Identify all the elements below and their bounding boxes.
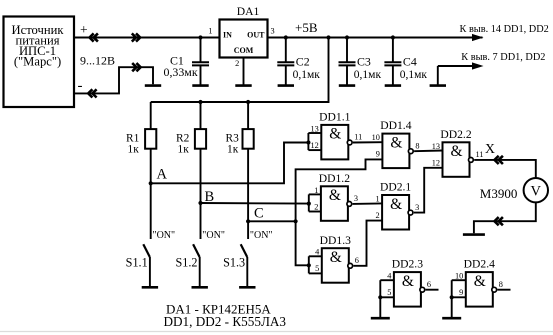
svg-text:1к: 1к [178, 144, 190, 156]
DD1.1 input tie [306, 133, 321, 150]
ground for - lead [145, 84, 161, 87]
svg-text:8: 8 [499, 280, 503, 289]
resistor R2 1к [176, 102, 206, 239]
svg-text:DD2.4: DD2.4 [464, 258, 495, 271]
svg-text:&: & [474, 273, 486, 290]
wire: DD1.1 out to DD1.4 pin 10 [353, 141, 382, 143]
svg-text:DD1.3: DD1.3 [320, 234, 351, 247]
svg-text:12: 12 [311, 141, 319, 150]
connector chevron X1 on + wire (right) [132, 33, 140, 41]
svg-text:3: 3 [271, 26, 275, 35]
ground for voltmeter return [463, 233, 485, 236]
svg-text:"ON": "ON" [250, 230, 273, 241]
svg-text:S1.2: S1.2 [175, 255, 197, 269]
svg-text:DD2.3: DD2.3 [392, 258, 423, 271]
wire: C riser up to DD1.4 pin 9 [296, 159, 383, 221]
svg-text:OUT: OUT [247, 30, 265, 39]
voltmeter PV1 M3900 [480, 178, 548, 202]
capacitor C3 0,1мк [345, 35, 349, 39]
wire: DD2.2 out to voltmeter [474, 160, 536, 178]
node: C riser junction [294, 219, 298, 223]
svg-text:-: - [78, 78, 83, 94]
wire: - lead from power box with jog [74, 67, 153, 93]
svg-text:9: 9 [459, 288, 463, 297]
switch S1.2 [175, 230, 224, 287]
capacitor C2 0,1мк [284, 35, 288, 39]
svg-text:9: 9 [376, 150, 380, 159]
capacitor C4 0,1мк [391, 35, 395, 39]
DD1.2 input tie [307, 194, 321, 211]
svg-text:М3900: М3900 [480, 186, 518, 201]
NAND gate DD2.4 (unused) [455, 258, 503, 307]
wire: DD1.4 out to DD2.2 pin 13 [414, 150, 442, 153]
DA1 pin 2 lead and ground [243, 58, 245, 86]
DD2.4 output stub [498, 289, 511, 291]
svg-text:DA1: DA1 [237, 5, 260, 18]
svg-text:11: 11 [354, 133, 362, 142]
NAND gate DD1.2 [314, 172, 358, 221]
svg-text:&: & [390, 134, 402, 151]
capacitor C1 0,33мк [164, 35, 210, 85]
svg-text:DD2.1: DD2.1 [380, 181, 411, 194]
NAND gate DD2.3 (unused) [387, 258, 431, 307]
DD2.3 input tie to ground [371, 280, 394, 318]
svg-text:+5В: +5В [295, 20, 318, 35]
svg-text:10: 10 [372, 133, 380, 142]
wire: node A to DD1.1 inputs [151, 143, 310, 184]
svg-text:C: C [254, 206, 264, 222]
svg-text:DD1.1: DD1.1 [319, 111, 350, 124]
svg-text:&: & [329, 187, 341, 204]
svg-text:IN: IN [223, 30, 232, 39]
wire: DD1.2 out to DD2.1 pin 1 [353, 202, 383, 205]
svg-text:0,1мк: 0,1мк [354, 69, 382, 81]
switch S1.1 [126, 230, 175, 287]
connector chevron X2 on - wire (left) [88, 89, 96, 97]
wire: + rail from power box to DA1 pin 1 [74, 37, 220, 39]
svg-text:&: & [330, 249, 342, 266]
svg-text:2: 2 [375, 211, 379, 220]
connector chevron on X wire [495, 156, 503, 164]
svg-text:S1.3: S1.3 [223, 255, 245, 269]
svg-text:С2: С2 [296, 55, 310, 69]
svg-text:A: A [157, 167, 168, 183]
svg-text:COM: COM [234, 46, 254, 55]
connector chevron X1 on + wire (left) [90, 33, 98, 41]
svg-text:6: 6 [427, 280, 431, 289]
svg-text:5: 5 [387, 288, 391, 297]
svg-text:9...12В: 9...12В [80, 53, 115, 67]
svg-text:X: X [485, 141, 495, 156]
wire: node C to riser [248, 220, 296, 222]
node A [149, 181, 153, 185]
connector chevron on return wire [495, 217, 503, 225]
resistor R1 1к [126, 102, 156, 239]
node C [246, 219, 250, 223]
svg-text:V: V [531, 183, 542, 199]
svg-text:13: 13 [311, 124, 319, 133]
wire: +5V drop to resistor rail [151, 35, 331, 104]
wire: node B to DD1.2 inputs [201, 202, 310, 205]
wire: voltmeter return to ground [474, 202, 536, 233]
svg-text:3: 3 [354, 194, 358, 203]
NAND gate DD2.2 [432, 128, 484, 177]
svg-text:1: 1 [208, 26, 212, 35]
DD2.4 input tie to ground [442, 280, 466, 318]
svg-text:13: 13 [432, 142, 440, 151]
svg-text:2: 2 [314, 202, 318, 211]
connector chevron X2 on - wire (right) [132, 63, 140, 71]
svg-text:("Марс"): ("Марс") [14, 54, 61, 68]
svg-text:11: 11 [476, 150, 484, 159]
NAND gate DD2.1 [375, 181, 419, 230]
svg-text:1к: 1к [227, 144, 239, 156]
svg-text:DD1.4: DD1.4 [380, 119, 411, 132]
svg-text:DD1, DD2 - К555ЛА3: DD1, DD2 - К555ЛА3 [164, 314, 287, 329]
wire: C riser down to DD1.3 inputs [296, 221, 310, 265]
resistor R3 1к [226, 102, 254, 239]
NAND gate DD1.3 [315, 234, 359, 283]
svg-text:8: 8 [415, 141, 419, 150]
svg-text:DD2.2: DD2.2 [440, 128, 471, 141]
svg-text:&: & [329, 126, 341, 143]
svg-text:"ON": "ON" [153, 230, 176, 241]
ground with arrow to pin 7 [430, 62, 484, 85]
svg-text:К выв. 14 DD1, DD2: К выв. 14 DD1, DD2 [460, 24, 549, 35]
svg-text:0,33мк: 0,33мк [164, 65, 198, 79]
+5В rail from DA1 pin 3 to arrow [268, 37, 483, 39]
svg-text:5: 5 [315, 264, 319, 273]
NAND gate DD1.1 [311, 111, 363, 160]
svg-text:0,1мк: 0,1мк [400, 69, 428, 81]
svg-text:3: 3 [415, 203, 419, 212]
svg-text:&: & [450, 143, 462, 160]
svg-text:S1.1: S1.1 [126, 255, 148, 269]
svg-text:1к: 1к [128, 144, 140, 156]
switch S1.3 [223, 230, 272, 287]
wire: DD1.3 out to DD2.1 pin 2 [354, 221, 383, 266]
DD2.3 output stub [426, 289, 439, 291]
wire: DD2.1 out to DD2.2 pin 12 [414, 168, 443, 213]
NAND gate DD1.4 [372, 119, 420, 168]
power source box G1 "Источник питания ИПС-1 (Марс)" [4, 17, 75, 108]
svg-text:К выв. 7 DD1, DD2: К выв. 7 DD1, DD2 [461, 52, 545, 63]
svg-text:DD1.2: DD1.2 [319, 172, 350, 185]
svg-text:&: & [402, 273, 414, 290]
faint scan line at bottom [0, 331, 553, 333]
node B [198, 201, 202, 205]
svg-text:С4: С4 [403, 55, 417, 69]
svg-text:"ON": "ON" [202, 230, 225, 241]
svg-text:12: 12 [432, 158, 440, 167]
svg-text:6: 6 [355, 256, 359, 265]
voltage regulator DA1 КР142ЕН5А [208, 5, 274, 68]
svg-text:0,1мк: 0,1мк [293, 69, 321, 81]
svg-text:&: & [390, 196, 402, 213]
DD1.3 input tie [307, 256, 322, 273]
arrow to pin 14 [472, 34, 484, 41]
svg-text:1: 1 [375, 195, 379, 204]
svg-text:+: + [80, 22, 88, 37]
svg-text:С3: С3 [357, 55, 371, 69]
svg-text:2: 2 [235, 59, 239, 68]
